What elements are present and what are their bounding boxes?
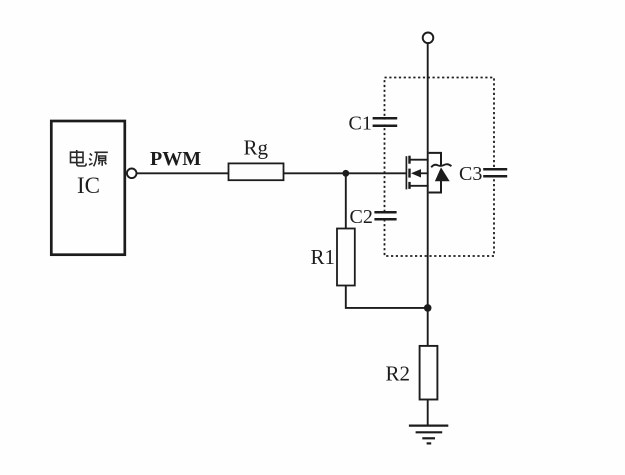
capacitor C1 [373,118,398,125]
mosfet Q1 [406,156,428,190]
node gate junction [342,170,349,177]
body arrow [411,169,421,177]
glyph yuan [89,152,108,166]
capacitor C3 [483,169,507,176]
source stub [411,185,429,187]
wire drain-source main line [427,43,429,346]
snubber dashed box [385,78,495,257]
resistor R2 [420,346,438,400]
wire PWM to Rg [137,172,229,174]
gate bar [405,156,407,189]
resistor R1 [337,229,355,286]
diode triangle [435,167,450,181]
svg-text:C1: C1 [349,113,372,135]
channel segment drain [408,156,410,164]
power IC box U1 [51,121,125,255]
svg-text:R2: R2 [386,362,411,386]
node source junction [424,304,432,312]
svg-text:C2: C2 [350,206,373,228]
glyph dian [71,150,87,166]
svg-text:C3: C3 [459,163,482,185]
channel segment source [408,182,410,189]
capacitor C2 [374,212,396,219]
wire junction to R1 [345,173,347,228]
wire R2 to ground [427,400,429,426]
svg-text:R1: R1 [311,245,336,269]
resistor Rg [229,163,284,180]
channel segment body [408,169,410,178]
terminal drain top [423,33,434,44]
PWM output terminal [127,169,137,179]
wire R1 bottom to source node [346,286,428,308]
body diode D1 [429,153,452,193]
svg-text:IC: IC [77,173,100,198]
diode bottom branch [429,181,441,193]
svg-text:PWM: PWM [150,148,201,170]
ground [409,426,448,444]
svg-text:Rg: Rg [244,136,269,160]
diode cathode squiggle [431,164,451,167]
diode top branch [429,153,441,165]
body stub [420,172,429,174]
label dianyuan (power) glyphs [71,150,108,166]
wire Rg to gate [284,172,407,174]
drain stub [411,159,429,161]
